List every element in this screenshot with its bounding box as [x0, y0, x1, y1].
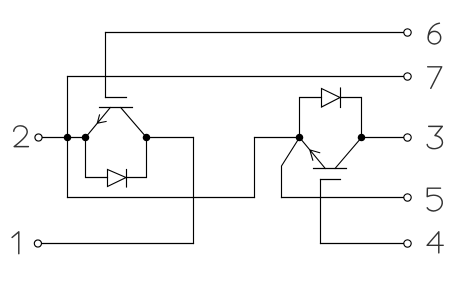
IGBT Q2 collector leg: [335, 138, 362, 169]
label 1: [12, 232, 19, 254]
wire terminal5 line: [282, 197, 404, 199]
IGBT Q1 collector leg: [121, 108, 147, 138]
wire Q1 collector to vertical: [147, 137, 194, 139]
terminal 6: [404, 29, 411, 36]
terminal 7: [404, 73, 411, 80]
IGBT Q1 body bar: [100, 107, 133, 109]
diode D1 anode connection: [86, 138, 108, 178]
wire gate lead Q2 (gate down to terminal 4): [320, 180, 322, 244]
node Q1 collector: [143, 134, 151, 142]
label 6: [428, 23, 439, 37]
wire terminal6 line: [106, 32, 404, 34]
diode D1 cathode connection: [127, 138, 147, 178]
IGBT Q1 gate bar: [106, 97, 127, 99]
IGBT Q1 emitter arrow: [97, 115, 106, 123]
wire emitter bus to Q2 emitter node: [255, 137, 300, 139]
diode D2 anode connection: [300, 98, 322, 138]
wire terminal1 line: [42, 243, 194, 245]
wire terminal7 line: [68, 76, 404, 78]
node Q2 emitter: [296, 134, 304, 142]
IGBT Q2 emitter arrow: [310, 150, 320, 160]
label 3: [427, 126, 442, 148]
diode D1 triangle: [108, 170, 127, 187]
wire gate lead Q1 (terminal 6 to gate): [105, 33, 107, 98]
diode D2 cathode bar: [340, 88, 342, 108]
node Q2 collector: [358, 134, 366, 142]
diode D1 cathode bar: [126, 170, 128, 188]
label 5: [427, 188, 442, 211]
IGBT Q2 body bar: [314, 168, 347, 170]
diode D2 cathode connection: [341, 98, 362, 138]
diode D2 triangle: [322, 89, 341, 108]
wire lower emitter bus horizontal: [68, 197, 255, 199]
terminal 2: [35, 134, 42, 141]
wire Q1 collector drop to terminal 1: [193, 138, 195, 244]
wire terminal3 line: [362, 137, 404, 139]
terminal 5: [404, 194, 411, 201]
wire terminal2 line: [42, 137, 85, 139]
terminal 3: [404, 134, 411, 141]
label 7: [428, 67, 442, 89]
label 4: [427, 232, 443, 253]
terminal 4: [404, 240, 411, 247]
node Q1 emitter: [82, 134, 90, 142]
wire terminal4 line: [321, 243, 404, 245]
node junction on terminal2/7 bus: [64, 134, 72, 142]
label 2: [14, 126, 29, 147]
terminal 1: [34, 240, 41, 247]
wire Q2 emitter diagonal to terminal 5: [282, 138, 300, 198]
IGBT Q1 emitter leg: [86, 108, 111, 138]
IGBT Q2 gate bar: [321, 179, 341, 181]
wire emitter bus vertical (terminal 7 down through node to lower bus): [67, 77, 69, 198]
IGBT Q2 emitter leg: [300, 138, 326, 169]
wire emitter bus riser: [254, 138, 256, 198]
